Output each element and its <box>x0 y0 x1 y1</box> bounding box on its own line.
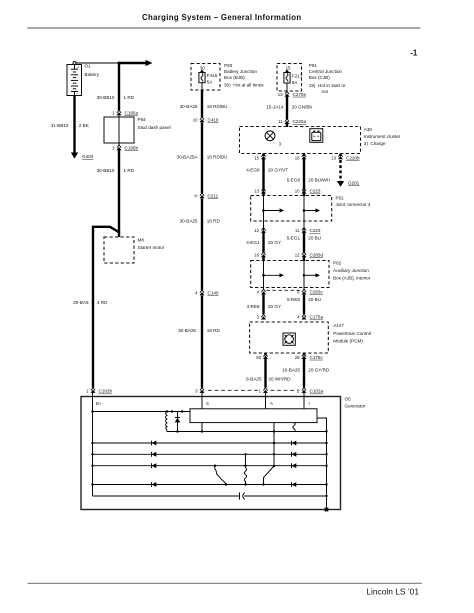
svg-text:C410: C410 <box>208 117 219 122</box>
svg-text:13: 13 <box>254 189 259 194</box>
wire 30-BA25 to generator S <box>201 296 203 388</box>
svg-text:50: 50 <box>256 355 261 360</box>
phase row 3 <box>93 465 327 467</box>
svg-text:C195b: C195b <box>125 145 139 150</box>
svg-text:Auxiliary Junction: Auxiliary Junction <box>333 268 369 273</box>
svg-text:A147: A147 <box>333 323 344 328</box>
I wire into regulator <box>303 393 305 410</box>
PCM pin 28 C175c <box>303 353 305 356</box>
instrument cluster A30 <box>240 127 401 154</box>
svg-text:F217: F217 <box>292 73 303 78</box>
field supply line <box>93 411 191 413</box>
svg-text:20 BU: 20 BU <box>308 297 321 302</box>
connector cluster pin 15 <box>254 154 266 161</box>
svg-text:16 RD: 16 RD <box>207 219 221 224</box>
svg-text:4 RD: 4 RD <box>97 300 108 305</box>
central junction box P91 <box>277 63 346 94</box>
svg-text:A: A <box>270 401 273 406</box>
svg-text:C211: C211 <box>208 193 219 198</box>
wire 30-BB10 lower <box>118 150 120 233</box>
wire stub into P62 right <box>303 255 305 261</box>
svg-text:P61: P61 <box>336 196 345 201</box>
svg-text:Starter motor: Starter motor <box>138 245 165 250</box>
svg-text:4: 4 <box>195 290 198 295</box>
P62 bus arrow left <box>262 273 284 277</box>
svg-text:C175c: C175c <box>310 355 324 360</box>
svg-text:C102a: C102a <box>310 389 324 394</box>
svg-text:30-BA25: 30-BA25 <box>180 104 198 109</box>
starter motor M8 <box>104 237 165 263</box>
wire 30-BB10 upper <box>118 62 120 110</box>
svg-text:-1: -1 <box>410 48 418 57</box>
wire 5-EG1 <box>303 233 305 253</box>
svg-text:4-RE8: 4-RE8 <box>246 304 259 309</box>
connector C220a <box>278 119 306 125</box>
connector C175a pin 3 <box>257 314 266 320</box>
svg-text:P62: P62 <box>333 261 342 266</box>
svg-text:3) Charge: 3) Charge <box>364 141 386 146</box>
svg-text:5-EG1: 5-EG1 <box>287 235 301 240</box>
svg-text:5A: 5A <box>207 79 214 84</box>
ground wire to G201 <box>339 160 341 181</box>
svg-text:1: 1 <box>112 145 115 150</box>
svg-text:8-BA25: 8-BA25 <box>246 377 262 382</box>
svg-text:run: run <box>322 89 329 94</box>
svg-text:C102b: C102b <box>99 389 113 394</box>
svg-text:F415: F415 <box>207 73 218 78</box>
B+ bus <box>92 393 94 497</box>
svg-text:S: S <box>206 401 209 406</box>
wire into cluster <box>286 124 288 127</box>
connector C283d pin 16 <box>254 252 266 258</box>
rectifier diode row4 left <box>151 482 153 487</box>
stator winding left <box>214 466 226 485</box>
wire battery negative 31-BB10 <box>73 96 75 153</box>
cluster pin 13 C220b <box>339 154 341 157</box>
field return line <box>167 431 327 433</box>
P61 bus arrow left <box>262 208 284 212</box>
svg-text:Central Junction: Central Junction <box>309 69 343 74</box>
svg-text:11: 11 <box>278 119 283 124</box>
svg-text:30-BA25A: 30-BA25A <box>177 155 199 160</box>
svg-text:16 RD: 16 RD <box>207 328 221 333</box>
wire stub into P61 right <box>303 192 305 197</box>
svg-text:15) Hot in start or: 15) Hot in start or <box>309 83 346 88</box>
rotor field coil <box>166 412 168 432</box>
wire bend toward generator <box>93 226 119 388</box>
svg-text:10-BA25: 10-BA25 <box>282 368 300 373</box>
svg-text:31-BB10: 31-BB10 <box>51 123 69 128</box>
fuse F217 5A <box>284 70 303 85</box>
svg-text:Joint connector 4: Joint connector 4 <box>336 202 371 207</box>
S wire into regulator <box>201 393 203 410</box>
connector C223 pin 12 <box>254 228 266 234</box>
rectifier diode row3 left <box>151 463 153 468</box>
svg-text:C220b: C220b <box>346 156 360 161</box>
svg-text:C283c: C283c <box>310 290 324 295</box>
connector C140 <box>195 290 219 296</box>
rectifier diode row3 right <box>291 463 293 468</box>
svg-text:15: 15 <box>286 65 291 70</box>
connector C211 <box>194 193 218 199</box>
wire 5-RE8 <box>303 294 305 314</box>
PCM icon <box>283 333 295 345</box>
svg-text:C140: C140 <box>208 290 219 295</box>
svg-text:16 RD/BU: 16 RD/BU <box>207 155 228 160</box>
svg-text:13: 13 <box>278 92 283 97</box>
svg-text:1: 1 <box>86 389 89 394</box>
wire battery positive to junction <box>76 62 119 64</box>
svg-text:30-BB10: 30-BB10 <box>97 168 115 173</box>
svg-text:5-RE8: 5-RE8 <box>287 297 300 302</box>
svg-text:3: 3 <box>257 315 260 320</box>
svg-text:4-EG1: 4-EG1 <box>246 240 260 245</box>
connector C195a <box>112 110 138 116</box>
svg-text:3: 3 <box>195 389 198 394</box>
regulator brush squiggle <box>293 423 295 432</box>
case ground joint <box>325 508 329 512</box>
ground G403 <box>71 153 94 160</box>
svg-text:15: 15 <box>254 156 259 161</box>
svg-text:A30: A30 <box>364 127 373 132</box>
svg-text:4: 4 <box>297 315 300 320</box>
connector C102a pin 3 (S) <box>195 388 204 394</box>
svg-text:Box (CJB): Box (CJB) <box>309 75 330 80</box>
wire stub into starter motor <box>118 231 120 237</box>
svg-text:20 GN/BK: 20 GN/BK <box>292 104 314 109</box>
phase row 4 <box>93 484 327 486</box>
connector C102b pin 1 <box>86 388 112 394</box>
rectifier diode row2 right <box>291 452 293 457</box>
phase row 1 <box>93 442 327 444</box>
svg-text:Powertrain Control: Powertrain Control <box>333 331 371 336</box>
rectifier diode row1 right <box>291 441 293 446</box>
svg-text:C223: C223 <box>310 189 321 194</box>
wire fuse F415 to C410 <box>201 83 203 90</box>
svg-text:Battery Junction: Battery Junction <box>224 69 257 74</box>
A sense vertical <box>264 423 275 485</box>
connector C270e <box>278 91 307 97</box>
connector C175a pin 4 <box>297 314 323 320</box>
wire through P61 left <box>263 196 265 231</box>
fuse F415 5A <box>199 70 218 85</box>
svg-text:15-JA14: 15-JA14 <box>266 104 284 109</box>
svg-text:11: 11 <box>295 228 300 233</box>
wire 15-JA14 <box>286 97 288 120</box>
joint connector P61 <box>251 196 371 222</box>
svg-text:12: 12 <box>295 252 300 257</box>
connector C102a pin 1 (A) <box>259 388 268 394</box>
connector C283c pin 4 <box>257 289 266 295</box>
svg-text:30: 30 <box>200 65 205 70</box>
connector C175c pin 28 <box>295 354 324 360</box>
svg-text:5-EG8: 5-EG8 <box>287 177 301 182</box>
svg-text:20 GY/VT: 20 GY/VT <box>268 168 288 173</box>
svg-text:G201: G201 <box>348 181 360 186</box>
wire 4-RE8 <box>262 294 264 314</box>
field suppression diode <box>175 412 180 432</box>
svg-text:2 BK: 2 BK <box>79 123 90 128</box>
svg-text:Lincoln LS ’01: Lincoln LS ’01 <box>366 586 419 596</box>
stator winding middle <box>244 454 246 484</box>
connector C223 pin 13 <box>254 188 266 194</box>
svg-text:30-BA25: 30-BA25 <box>180 219 198 224</box>
svg-text:20 BU: 20 BU <box>308 235 321 240</box>
connector cluster pin 16 <box>295 154 307 161</box>
svg-text:3: 3 <box>279 141 282 146</box>
svg-text:C195a: C195a <box>125 111 139 116</box>
svg-text:1 RD: 1 RD <box>124 168 135 173</box>
svg-text:C223: C223 <box>310 228 321 233</box>
connector C102a link dashes <box>208 389 259 391</box>
regulator S stub <box>201 423 203 432</box>
connector C283c pin 6 <box>297 289 323 295</box>
wire 4-EG1 <box>262 233 264 253</box>
svg-text:16: 16 <box>254 252 259 257</box>
svg-text:B+: B+ <box>96 401 102 406</box>
svg-text:Stud dash panel: Stud dash panel <box>138 125 171 130</box>
svg-text:C175a: C175a <box>310 315 324 320</box>
svg-text:30-BA25: 30-BA25 <box>178 328 196 333</box>
svg-text:30) Hot at all times: 30) Hot at all times <box>224 82 264 87</box>
wire stub into P62 left <box>262 255 264 261</box>
wire through P62 left <box>263 261 265 290</box>
wire through P62 right <box>303 261 305 290</box>
phase row 2 <box>93 453 327 455</box>
wire stub into P61 left <box>262 192 264 197</box>
connector C223 pin 11 <box>295 228 321 234</box>
generator O5 box <box>81 397 366 510</box>
svg-text:C283d: C283d <box>310 252 324 257</box>
cluster pin 15 <box>262 154 264 157</box>
connector C220b <box>331 154 360 161</box>
rectifier diode row4 right <box>291 482 293 487</box>
svg-text:C270e: C270e <box>293 92 307 97</box>
svg-text:20 GY: 20 GY <box>268 240 281 245</box>
output line with capacitor <box>93 492 327 499</box>
wire 10-BA25 <box>303 359 305 388</box>
powertrain control module A147 <box>250 322 372 353</box>
wire fuse F217 to C270e <box>286 83 288 92</box>
svg-text:2: 2 <box>297 389 300 394</box>
svg-text:Box (BJB): Box (BJB) <box>224 75 245 80</box>
svg-text:O1: O1 <box>85 64 92 69</box>
wire arrow to other circuits <box>118 60 153 66</box>
svg-text:1: 1 <box>259 389 262 394</box>
splice box P64 stud dash panel <box>104 116 171 146</box>
svg-text:P93: P93 <box>224 63 233 68</box>
connector C175c pin 50 <box>256 354 268 360</box>
footer rule <box>28 582 423 584</box>
svg-text:C220a: C220a <box>293 119 307 124</box>
wire through P61 right <box>303 196 305 231</box>
svg-text:28: 28 <box>295 355 300 360</box>
wire 30-BA25 16 RD <box>201 199 203 291</box>
voltage regulator <box>190 409 317 423</box>
svg-text:4-EG8: 4-EG8 <box>246 168 260 173</box>
svg-text:16 RD/BU: 16 RD/BU <box>207 104 228 109</box>
connector C283c link dashes <box>267 289 302 291</box>
connector C195b <box>112 145 138 151</box>
P62 bus arrow right <box>303 273 320 277</box>
svg-text:P64: P64 <box>138 117 147 122</box>
svg-text:20 GY/RD: 20 GY/RD <box>308 368 330 373</box>
svg-text:G403: G403 <box>82 154 94 159</box>
svg-text:P91: P91 <box>309 63 318 68</box>
svg-text:5A: 5A <box>292 80 299 85</box>
svg-text:16: 16 <box>295 156 300 161</box>
svg-text:Box (AJB), interior: Box (AJB), interior <box>333 276 371 281</box>
svg-text:Module (PCM): Module (PCM) <box>333 339 363 344</box>
wire 30-BA25A <box>201 123 203 194</box>
svg-text:+: + <box>77 65 79 69</box>
regulator output to ground bus <box>317 418 327 510</box>
svg-text:Charging System – General Info: Charging System – General Information <box>142 13 301 22</box>
svg-text:10: 10 <box>193 117 198 122</box>
svg-text:H: H <box>194 193 197 198</box>
connector C102a pin 2 (I) <box>297 388 323 394</box>
ground G201 <box>337 181 360 187</box>
svg-text:1: 1 <box>112 111 115 116</box>
wire 8-BA25 <box>264 359 266 388</box>
svg-text:10: 10 <box>295 189 300 194</box>
wire 4-EG8 <box>262 159 264 191</box>
svg-text:Battery: Battery <box>85 72 100 77</box>
svg-text:Generator: Generator <box>345 404 366 409</box>
A wire into regulator <box>265 393 267 410</box>
charge indicator battery icon <box>310 129 323 143</box>
svg-text:O5: O5 <box>345 397 352 402</box>
svg-text:20 WH/RD: 20 WH/RD <box>269 377 292 382</box>
svg-text:13: 13 <box>331 156 336 161</box>
connector C223 pin 10 <box>295 188 321 194</box>
battery O1 <box>67 62 100 96</box>
cluster pin 16 <box>303 154 305 157</box>
svg-text:30-BB10: 30-BB10 <box>97 95 115 100</box>
svg-text:I: I <box>309 401 310 406</box>
rectifier diode row2 left <box>151 452 153 457</box>
svg-text:30-BA6: 30-BA6 <box>73 300 89 305</box>
header rule <box>27 27 420 29</box>
svg-text:20 GY: 20 GY <box>268 304 281 309</box>
svg-text:4: 4 <box>257 290 260 295</box>
wire 5-EG8 <box>303 159 305 191</box>
charge indicator lamp <box>265 131 282 146</box>
P61 bus arrow right <box>303 208 320 212</box>
connector C283d pin 12 <box>295 252 324 258</box>
auxiliary junction box P62 <box>251 261 371 288</box>
rectifier diode row1 left <box>151 441 153 446</box>
battery junction box P93 <box>191 63 264 90</box>
connector C410 <box>193 117 219 123</box>
PCM pin 50 C175c <box>264 353 266 356</box>
svg-text:20 BU/WH: 20 BU/WH <box>308 177 330 182</box>
svg-text:Instrument cluster: Instrument cluster <box>364 134 401 139</box>
svg-text:12: 12 <box>254 228 259 233</box>
svg-text:1 RD: 1 RD <box>124 95 135 100</box>
svg-text:M8: M8 <box>138 238 145 243</box>
